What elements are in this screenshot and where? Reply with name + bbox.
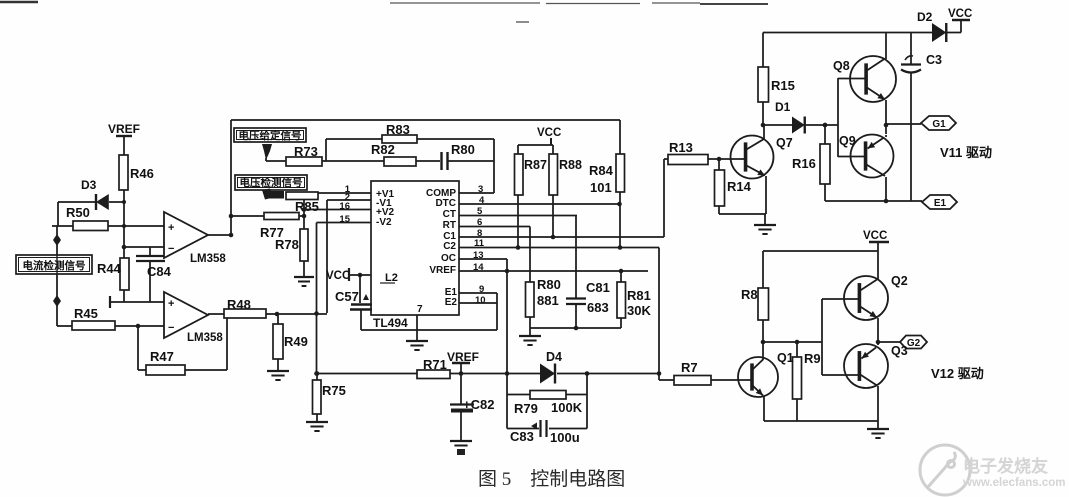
svg-text:−: − (168, 322, 174, 334)
svg-text:LM358: LM358 (190, 253, 226, 265)
svg-text:D2: D2 (917, 10, 933, 24)
svg-text:R79: R79 (514, 401, 538, 416)
svg-text:Q1: Q1 (777, 351, 794, 365)
svg-text:D3: D3 (81, 178, 97, 192)
svg-text:R7: R7 (681, 360, 698, 375)
svg-text:R49: R49 (284, 334, 308, 349)
svg-text:L2: L2 (385, 272, 398, 284)
svg-text:-V2: -V2 (376, 217, 392, 228)
svg-text:Q2: Q2 (891, 274, 908, 288)
svg-text:电压给定信号: 电压给定信号 (239, 129, 302, 142)
svg-text:C81: C81 (586, 280, 610, 295)
svg-text:R44: R44 (97, 261, 122, 276)
svg-text:图 5 控制电路图: 图 5 控制电路图 (478, 468, 625, 490)
svg-text:RT: RT (443, 220, 456, 231)
svg-text:Q8: Q8 (833, 59, 850, 73)
svg-text:7: 7 (417, 304, 423, 315)
svg-text:VCC: VCC (537, 127, 561, 139)
svg-text:R45: R45 (74, 306, 98, 321)
svg-text:R9: R9 (804, 351, 821, 366)
svg-text:www.elecfans.com: www.elecfans.com (962, 477, 1065, 489)
svg-text:CT: CT (443, 209, 456, 220)
svg-text:Q7: Q7 (776, 136, 793, 150)
svg-text:电流检测信号: 电流检测信号 (23, 259, 86, 272)
svg-text:+: + (168, 222, 174, 234)
svg-text:V11 驱动: V11 驱动 (940, 145, 992, 160)
svg-text:VCC: VCC (863, 230, 887, 242)
svg-text:R88: R88 (559, 158, 582, 172)
svg-text:R81: R81 (627, 288, 651, 303)
svg-text:R75: R75 (322, 383, 346, 398)
svg-text:电压检测信号: 电压检测信号 (240, 176, 303, 189)
svg-text:C84: C84 (147, 264, 172, 279)
svg-text:电子发烧友: 电子发烧友 (963, 456, 1048, 476)
svg-text:C83: C83 (510, 429, 534, 444)
svg-text:E1: E1 (934, 198, 947, 209)
svg-text:E2: E2 (445, 297, 458, 308)
svg-text:R87: R87 (524, 158, 547, 172)
svg-text:C57: C57 (335, 289, 359, 304)
svg-text:D1: D1 (775, 100, 791, 114)
svg-text:R16: R16 (792, 156, 816, 171)
svg-text:R13: R13 (669, 140, 693, 155)
svg-text:VCC: VCC (948, 8, 972, 20)
svg-text:30K: 30K (627, 303, 651, 318)
svg-text:Q9: Q9 (839, 134, 856, 148)
svg-text:TL494: TL494 (373, 316, 408, 330)
svg-text:C2: C2 (443, 241, 456, 252)
svg-text:R78: R78 (275, 237, 299, 252)
svg-text:VCC: VCC (326, 270, 350, 282)
svg-text:+: + (168, 298, 174, 310)
svg-text:DTC: DTC (435, 198, 456, 209)
svg-text:C3: C3 (926, 53, 942, 67)
svg-text:R46: R46 (130, 166, 154, 181)
svg-text:Q3: Q3 (891, 344, 908, 358)
svg-text:R84: R84 (589, 163, 614, 178)
svg-text:100u: 100u (550, 430, 580, 445)
svg-text:100K: 100K (551, 400, 583, 415)
svg-text:−: − (168, 243, 174, 255)
svg-text:R82: R82 (371, 142, 395, 157)
svg-text:LM358: LM358 (187, 332, 223, 344)
svg-text:R80: R80 (451, 142, 475, 157)
svg-text:G2: G2 (907, 338, 921, 349)
svg-text:R50: R50 (66, 205, 90, 220)
svg-text:683: 683 (587, 300, 609, 315)
svg-text:VREF: VREF (429, 265, 456, 276)
svg-text:R47: R47 (150, 349, 174, 364)
svg-text:OC: OC (441, 253, 456, 264)
svg-text:10: 10 (475, 295, 486, 306)
svg-text:881: 881 (537, 293, 559, 308)
svg-text:V12 驱动: V12 驱动 (931, 366, 984, 381)
svg-text:R80: R80 (537, 277, 561, 292)
svg-text:R14: R14 (727, 179, 752, 194)
svg-text:G1: G1 (932, 119, 946, 130)
svg-text:R8: R8 (741, 287, 758, 302)
svg-text:R15: R15 (771, 78, 795, 93)
svg-text:D4: D4 (546, 350, 562, 364)
svg-text:101: 101 (590, 180, 612, 195)
svg-text:VREF: VREF (108, 122, 140, 136)
